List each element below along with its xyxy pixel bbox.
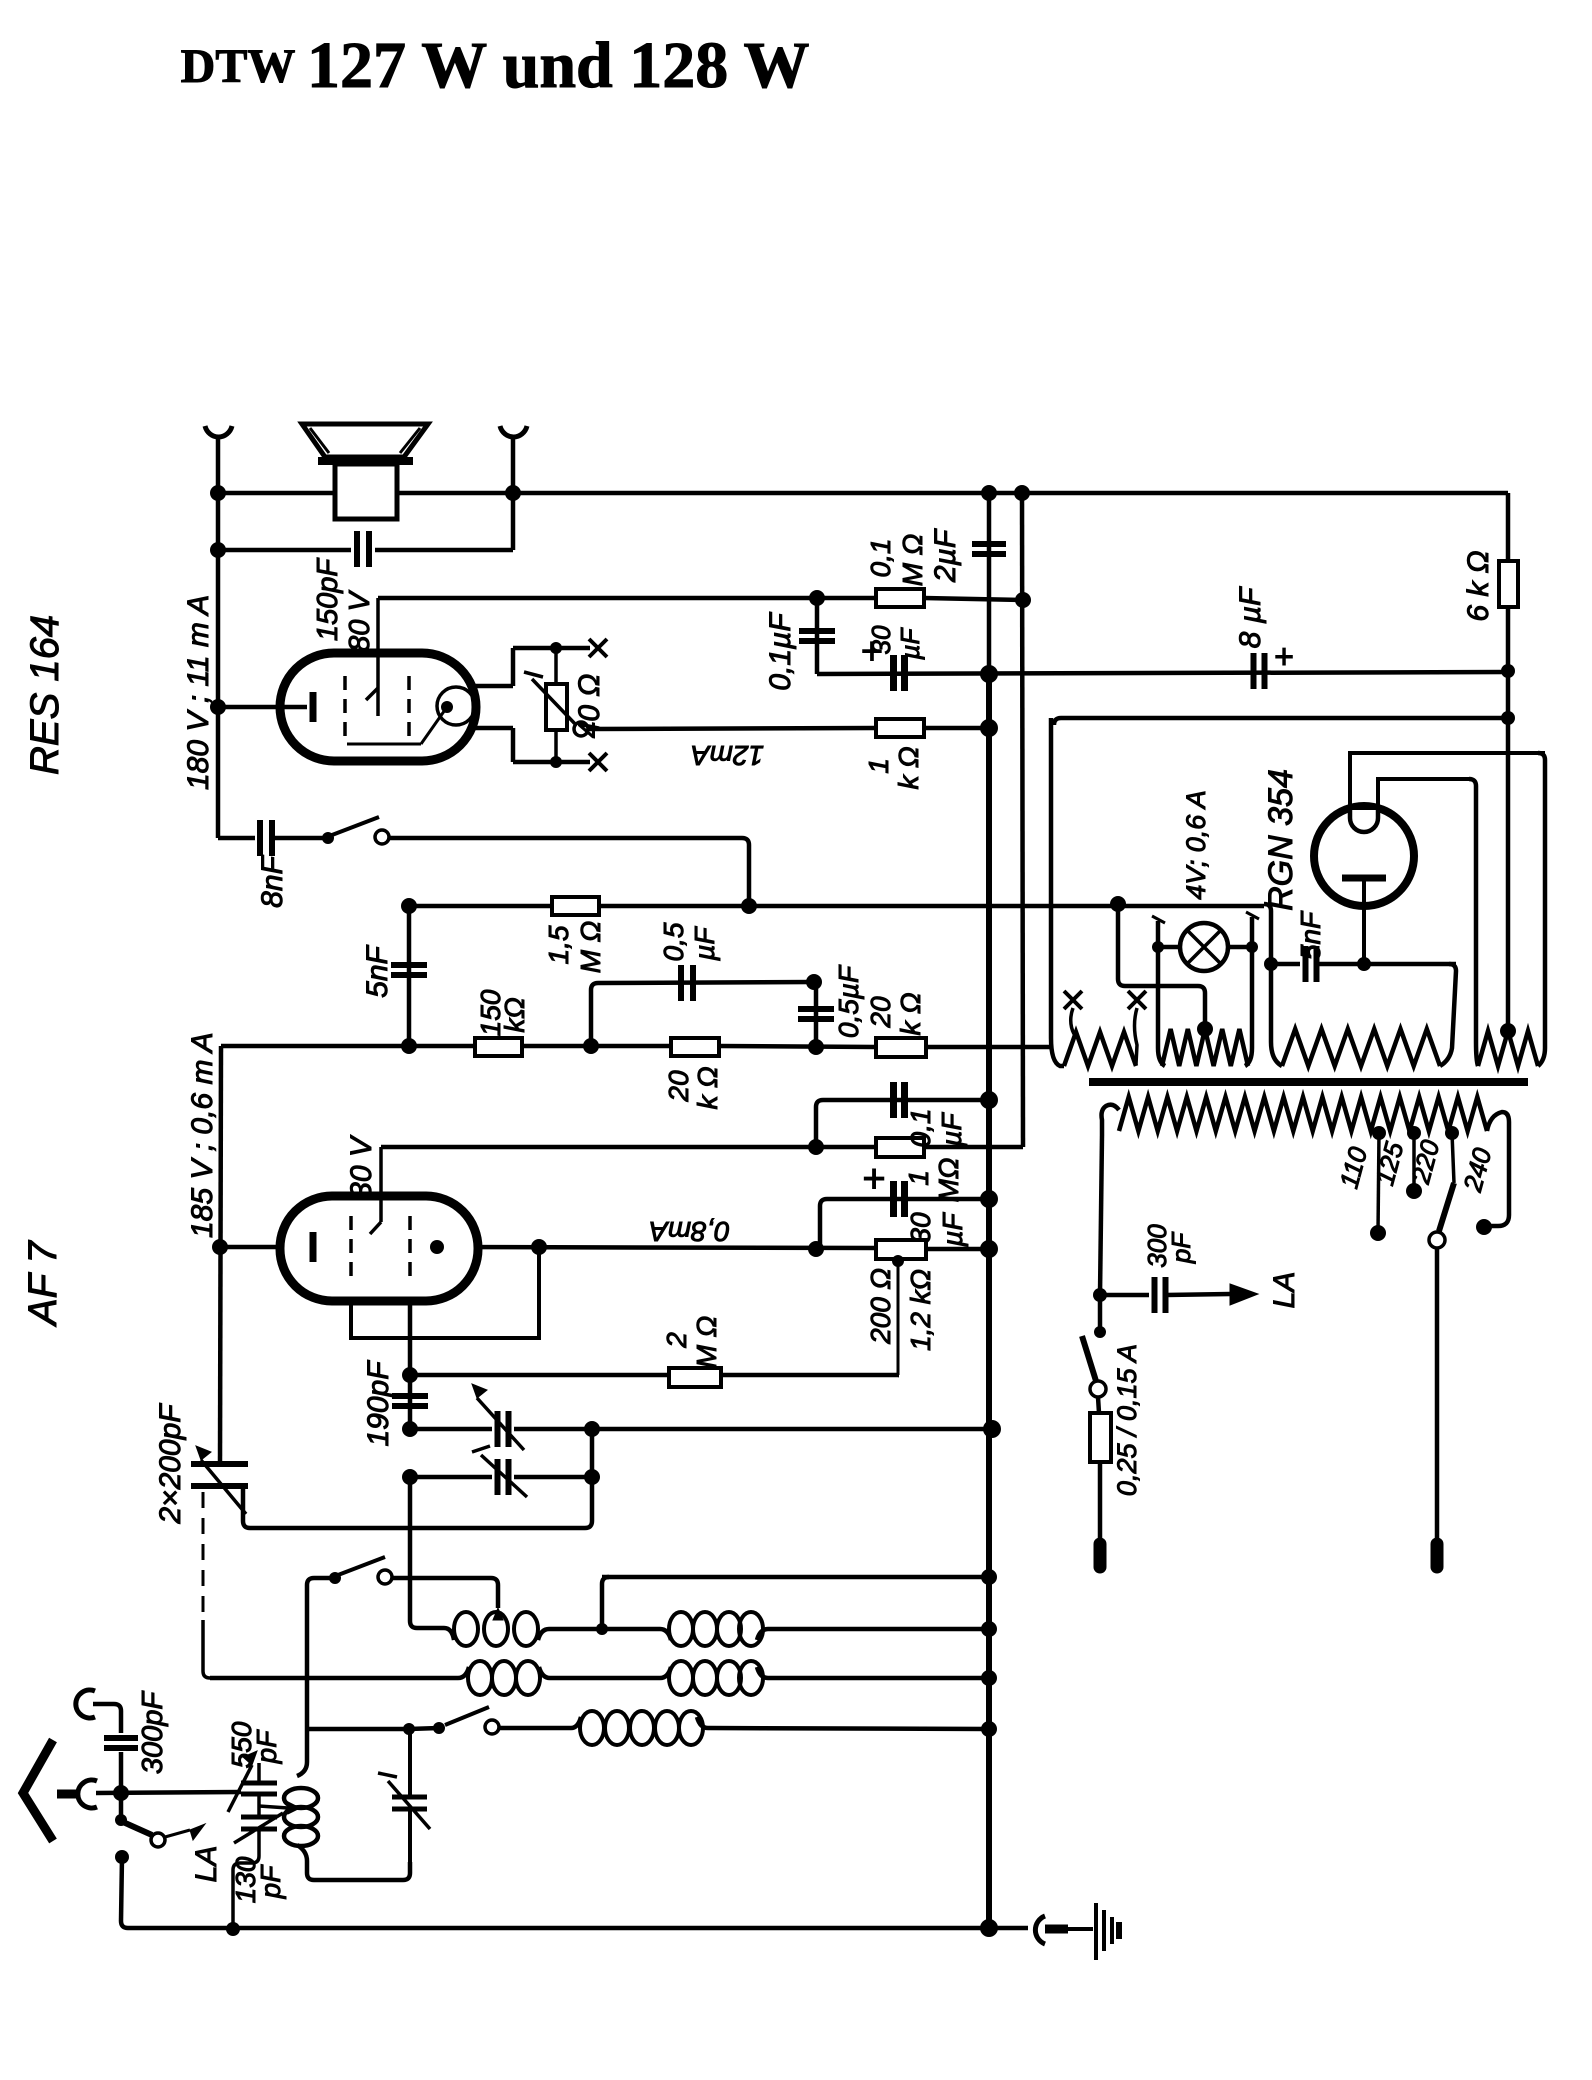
svg-text:1,2 kΩ: 1,2 kΩ: [905, 1269, 936, 1351]
svg-text:pF: pF: [1166, 1231, 1196, 1264]
svg-text:20: 20: [865, 996, 896, 1029]
svg-text:0,1µF: 0,1µF: [764, 612, 797, 691]
svg-text:8nF: 8nF: [256, 854, 289, 907]
svg-text:2: 2: [661, 1332, 692, 1349]
svg-text:LA: LA: [1268, 1272, 1301, 1309]
svg-text:k Ω: k Ω: [692, 1066, 723, 1109]
svg-text:6 k Ω: 6 k Ω: [1462, 550, 1495, 621]
svg-text:MΩ: MΩ: [933, 1158, 964, 1203]
svg-text:185 V ; 0,6 m A: 185 V ; 0,6 m A: [186, 1032, 219, 1238]
svg-text:40 Ω: 40 Ω: [573, 674, 606, 739]
svg-text:80 V: 80 V: [344, 590, 376, 652]
svg-text:LA: LA: [190, 1846, 223, 1883]
svg-text:µF: µF: [895, 626, 925, 660]
svg-text:180 V ; 11 m A: 180 V ; 11 m A: [182, 595, 215, 790]
svg-text:kΩ: kΩ: [499, 997, 530, 1032]
svg-text:M Ω: M Ω: [691, 1316, 722, 1368]
svg-text:+: +: [1274, 638, 1294, 676]
svg-text:5nF: 5nF: [361, 944, 394, 997]
svg-text:2µF: 2µF: [929, 528, 962, 583]
svg-text:200 Ω: 200 Ω: [865, 1268, 896, 1345]
svg-text:RGN 354: RGN 354: [1262, 769, 1300, 911]
svg-text:M Ω: M Ω: [575, 921, 606, 973]
svg-text:µF: µF: [689, 925, 720, 961]
svg-text:RES 164: RES 164: [23, 615, 67, 775]
svg-text:30 V: 30 V: [345, 1134, 378, 1199]
svg-text:0,1: 0,1: [905, 1109, 936, 1148]
svg-text:0,25 / 0,15 A: 0,25 / 0,15 A: [1112, 1344, 1142, 1496]
svg-text:+: +: [862, 1157, 885, 1201]
svg-text:pF: pF: [255, 1864, 286, 1900]
svg-text:k Ω: k Ω: [895, 992, 926, 1035]
svg-text:µF: µF: [936, 1111, 967, 1147]
svg-text:M Ω: M Ω: [897, 534, 928, 586]
svg-text:2×200pF: 2×200pF: [154, 1403, 187, 1525]
svg-text:0,8mA: 0,8mA: [649, 1216, 730, 1247]
svg-text:4V; 0,6 A: 4V; 0,6 A: [1181, 790, 1211, 900]
svg-text:300pF: 300pF: [137, 1690, 169, 1775]
svg-text:150pF: 150pF: [312, 557, 344, 642]
svg-text:127 W und 128 W: 127 W und 128 W: [307, 29, 810, 102]
svg-text:µF: µF: [937, 1211, 968, 1247]
svg-text:AF 7: AF 7: [21, 1239, 65, 1327]
svg-text:0,5µF: 0,5µF: [833, 964, 864, 1038]
svg-text:190pF: 190pF: [362, 1360, 395, 1447]
svg-text:20: 20: [663, 1070, 694, 1103]
svg-text:1,5: 1,5: [543, 925, 574, 964]
svg-text:pF: pF: [251, 1729, 282, 1765]
svg-text:k Ω: k Ω: [893, 746, 924, 789]
svg-text:8 µF: 8 µF: [1234, 586, 1267, 648]
svg-text:1: 1: [863, 758, 894, 774]
svg-text:5nF: 5nF: [1295, 910, 1326, 960]
svg-text:DTW: DTW: [181, 40, 296, 93]
svg-text:0,1: 0,1: [865, 539, 896, 578]
svg-text:12mA: 12mA: [691, 740, 764, 771]
svg-text:0,5: 0,5: [658, 922, 689, 961]
svg-text:30: 30: [866, 625, 896, 654]
